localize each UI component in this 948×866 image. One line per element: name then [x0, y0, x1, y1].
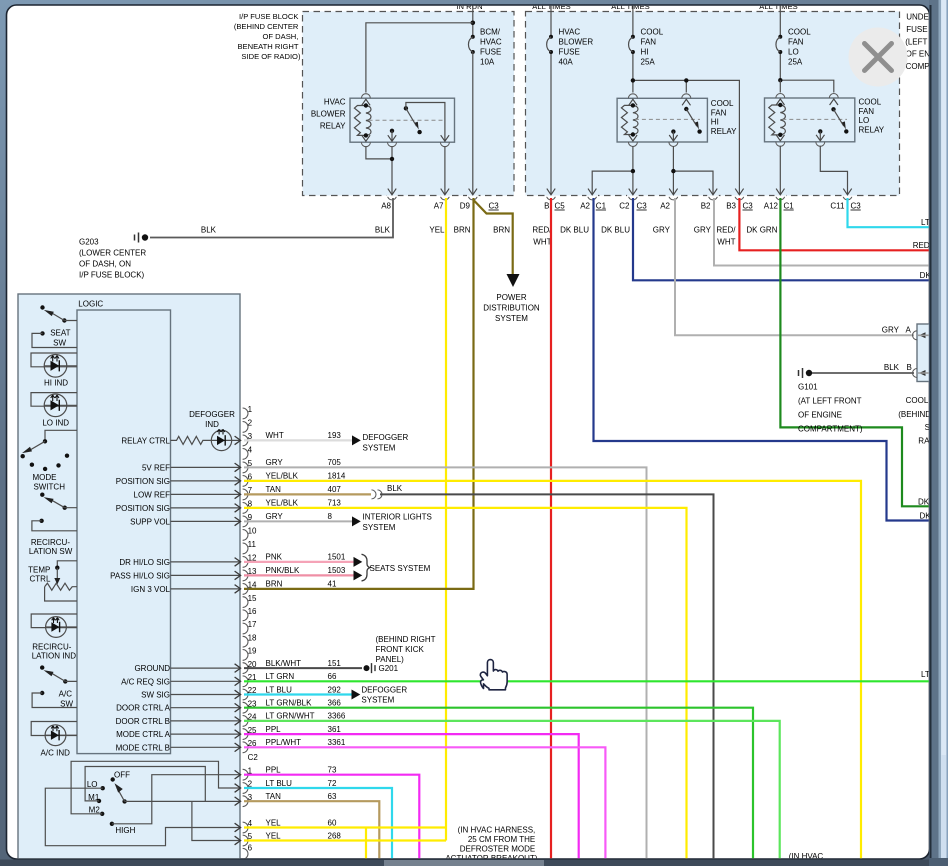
fuse HVAC BLOWER 40A — [547, 2, 594, 194]
junction A8 — [390, 157, 394, 161]
svg-text:RELAY: RELAY — [711, 127, 737, 136]
svg-text:TAN: TAN — [266, 792, 282, 801]
svg-text:MODE CTRL A: MODE CTRL A — [116, 730, 171, 739]
svg-text:WHT: WHT — [266, 431, 284, 440]
potentiometer TEMP CTRL — [28, 561, 77, 601]
svg-text:CTRL: CTRL — [30, 575, 51, 584]
svg-text:PNK/BLK: PNK/BLK — [266, 566, 300, 575]
svg-text:LOW REF: LOW REF — [134, 490, 171, 499]
svg-text:BLK: BLK — [375, 225, 391, 234]
svg-text:FUSE: FUSE — [480, 48, 501, 57]
wire PNK 1501 — [244, 561, 354, 563]
svg-text:16: 16 — [248, 607, 257, 616]
svg-text:17: 17 — [248, 620, 257, 629]
svg-text:A/C REQ SIG: A/C REQ SIG — [121, 677, 170, 686]
svg-text:151: 151 — [328, 659, 342, 668]
svg-text:A/C: A/C — [59, 689, 73, 698]
wire relay switch to A7 pin — [444, 146, 446, 194]
wire LT GRN/BLK 366 — [244, 708, 753, 859]
wire YEL/BLK 1814 — [244, 481, 861, 859]
wire relay coil- to A8 — [366, 146, 392, 159]
close button — [849, 28, 908, 87]
svg-text:LO: LO — [859, 116, 870, 125]
pin A7 bump — [440, 195, 449, 200]
svg-text:SEATS SYSTEM: SEATS SYSTEM — [370, 564, 431, 573]
svg-text:G101: G101 — [798, 383, 818, 392]
svg-text:C3: C3 — [851, 202, 862, 211]
svg-text:713: 713 — [328, 499, 342, 508]
wire BLK A8 to G203 — [150, 198, 393, 238]
svg-text:BLK: BLK — [884, 363, 900, 372]
svg-text:66: 66 — [328, 672, 337, 681]
LED HI IND — [31, 353, 77, 387]
wire LT BLU 292 to defogger — [244, 693, 352, 695]
wire M2 to pin C2-2 — [71, 761, 240, 814]
svg-text:LOGIC: LOGIC — [78, 299, 103, 308]
wire IN RUN feed — [472, 2, 474, 36]
relay COOL FAN HI RELAY — [617, 94, 737, 147]
svg-text:10: 10 — [248, 527, 257, 536]
wire labels C1 — [266, 431, 346, 747]
svg-text:C11: C11 — [830, 202, 845, 211]
svg-text:POWER: POWER — [496, 293, 526, 302]
wire pin C2-5 branch — [192, 801, 240, 840]
svg-text:BLOWER: BLOWER — [311, 110, 346, 119]
junction fan-hi — [631, 78, 635, 82]
HVAC control module outer box — [18, 294, 240, 859]
svg-text:COOL: COOL — [711, 99, 734, 108]
svg-text:RECIRCU-: RECIRCU- — [32, 643, 71, 652]
svg-text:DK BLU: DK BLU — [560, 225, 589, 234]
svg-text:WHT: WHT — [533, 237, 551, 246]
svg-text:PNK: PNK — [266, 553, 283, 562]
svg-text:LO IND: LO IND — [42, 418, 69, 427]
svg-text:3366: 3366 — [328, 712, 346, 721]
wire LT BLU 72 — [244, 788, 392, 859]
wire BRN branch to power distribution — [474, 200, 513, 274]
svg-text:COOL: COOL — [859, 98, 882, 107]
ground G201 — [364, 665, 370, 671]
svg-text:POSITION SIG: POSITION SIG — [116, 504, 170, 513]
fuse COOL FAN HI 25A — [629, 2, 664, 80]
cursor — [480, 660, 507, 690]
svg-text:TEMP: TEMP — [28, 566, 50, 575]
svg-text:C1: C1 — [784, 202, 795, 211]
wire DK BLU A2/C1 — [594, 198, 931, 521]
LED LO IND — [31, 393, 77, 428]
logic block — [77, 310, 171, 754]
svg-text:C2: C2 — [248, 753, 259, 762]
relay HVAC BLOWER RELAY — [311, 94, 455, 147]
svg-text:(BEHIND: (BEHIND — [898, 410, 931, 419]
svg-text:LT GRN/BLK: LT GRN/BLK — [266, 699, 313, 708]
svg-text:19: 19 — [248, 647, 257, 656]
svg-text:11: 11 — [248, 540, 257, 549]
svg-text:HVAC: HVAC — [559, 28, 581, 37]
svg-text:1503: 1503 — [328, 566, 346, 575]
svg-text:G201: G201 — [379, 664, 399, 673]
svg-text:PPL: PPL — [266, 725, 282, 734]
ground G203 — [79, 226, 217, 280]
svg-text:8: 8 — [328, 512, 333, 521]
svg-text:SUPP VOL: SUPP VOL — [130, 517, 170, 526]
svg-text:LT BLU: LT BLU — [266, 685, 293, 694]
svg-text:14: 14 — [248, 581, 257, 590]
svg-text:BLK: BLK — [387, 484, 403, 493]
svg-text:IN RUN: IN RUN — [456, 2, 482, 11]
svg-text:HI: HI — [711, 118, 719, 127]
svg-text:41: 41 — [328, 580, 337, 589]
wire relay NO contact to A8 pin — [391, 146, 393, 194]
svg-text:HVAC: HVAC — [480, 38, 502, 47]
svg-text:FAN: FAN — [711, 108, 727, 117]
wire GRY B2 — [714, 198, 930, 266]
wire TAN 407 — [244, 493, 371, 495]
svg-text:1: 1 — [248, 405, 253, 414]
svg-text:B2: B2 — [701, 202, 711, 211]
svg-text:SEAT: SEAT — [50, 328, 70, 337]
svg-text:GROUND: GROUND — [134, 664, 170, 673]
wire PPL/WHT 3361 — [244, 747, 605, 859]
svg-text:407: 407 — [328, 485, 342, 494]
svg-text:BRN: BRN — [454, 225, 471, 234]
svg-text:(AT LEFT FRONT: (AT LEFT FRONT — [798, 397, 862, 406]
svg-text:FUSE: FUSE — [559, 48, 580, 57]
wire PNK/BLK 1503 — [244, 574, 354, 576]
wire color labels row — [375, 225, 778, 246]
svg-text:FAN: FAN — [859, 107, 875, 116]
wire RED/WHT B3 — [739, 198, 930, 250]
svg-text:BCM/: BCM/ — [480, 28, 501, 37]
svg-text:COOL: COOL — [641, 28, 664, 37]
svg-text:A2: A2 — [660, 202, 670, 211]
svg-text:YEL/BLK: YEL/BLK — [266, 472, 299, 481]
svg-text:LO: LO — [788, 48, 799, 57]
svg-text:G203: G203 — [79, 237, 99, 246]
LED A/C IND — [31, 722, 77, 758]
box2 bottom pin bumps — [545, 189, 853, 200]
bottom scrollbar — [0, 858, 948, 866]
svg-text:C3: C3 — [743, 202, 754, 211]
svg-text:DEFOGGER: DEFOGGER — [361, 685, 407, 694]
wire labels C2 — [266, 766, 342, 841]
connector C1 pin arcs and numbers — [243, 405, 257, 753]
splice — [372, 490, 383, 499]
svg-text:DR HI/LO SIG: DR HI/LO SIG — [119, 558, 170, 567]
svg-text:SYSTEM: SYSTEM — [361, 696, 394, 705]
svg-text:25A: 25A — [641, 57, 656, 66]
svg-text:OFF: OFF — [114, 771, 130, 780]
svg-text:DK GRN: DK GRN — [746, 225, 777, 234]
box2 pin labels — [544, 202, 861, 211]
fuse BCM/HVAC 10A — [468, 21, 501, 67]
svg-text:DOOR CTRL B: DOOR CTRL B — [116, 717, 170, 726]
connector C2 pin arcs and numbers — [243, 766, 253, 859]
wire LO to pin C2-4 — [45, 788, 240, 846]
wire BLK/WHT 151 to G201 — [244, 667, 362, 669]
wire BLK from splice — [380, 494, 714, 859]
svg-text:DOOR CTRL A: DOOR CTRL A — [116, 704, 171, 713]
wire YEL 60 — [244, 826, 446, 828]
svg-text:I/P FUSE BLOCK): I/P FUSE BLOCK) — [79, 271, 145, 280]
arrow defogger system 2 — [352, 690, 361, 700]
module internal pin labels — [110, 436, 171, 752]
wire YEL/BLK 713 — [244, 508, 687, 859]
wire HIGH to pin C2-1 — [112, 775, 240, 824]
arrow interior lights system — [352, 516, 361, 526]
svg-text:B: B — [907, 363, 912, 372]
wire PPL 73 — [244, 775, 419, 859]
module internal pin wires — [171, 463, 241, 845]
wire WHT 193 to defogger system — [244, 439, 352, 441]
svg-text:C5: C5 — [555, 202, 566, 211]
svg-text:FAN: FAN — [641, 38, 657, 47]
wire YEL A7 blower feed — [445, 198, 447, 841]
svg-text:A2: A2 — [580, 202, 590, 211]
svg-text:DISTRIBUTION: DISTRIBUTION — [483, 303, 540, 312]
wire BRN D9 to pin14 — [244, 198, 474, 589]
svg-text:BLOWER: BLOWER — [559, 38, 594, 47]
wire GRY 8 to interior lights — [244, 520, 352, 522]
svg-text:RED/: RED/ — [532, 225, 552, 234]
connector cooling fan (clipped at edge) — [913, 324, 930, 382]
svg-text:YEL: YEL — [429, 225, 445, 234]
svg-text:WHT: WHT — [717, 237, 735, 246]
underhood fuse block box — [526, 12, 900, 196]
arrow defogger system — [352, 435, 361, 445]
svg-text:RECIRCU-: RECIRCU- — [31, 538, 70, 547]
svg-text:72: 72 — [328, 779, 337, 788]
svg-text:C3: C3 — [489, 202, 500, 211]
wire fan-hi fuse to relays and B3 — [633, 80, 740, 194]
switch MODE SWITCH — [21, 430, 78, 491]
svg-text:1501: 1501 — [328, 553, 346, 562]
LED DEFOGGER IND — [189, 410, 240, 450]
wire TAN 63 — [244, 801, 379, 859]
svg-text:C3: C3 — [637, 202, 648, 211]
svg-text:POSITION SIG: POSITION SIG — [116, 477, 170, 486]
wire RED/WHT B feed — [550, 198, 552, 859]
blower switch contacts — [87, 771, 136, 835]
svg-text:292: 292 — [328, 685, 342, 694]
switch RECIRCULATION SW — [29, 493, 77, 557]
svg-text:1814: 1814 — [328, 472, 346, 481]
wire LT GRN 66 — [244, 680, 930, 682]
svg-text:BRN: BRN — [493, 225, 510, 234]
svg-text:4: 4 — [248, 446, 253, 455]
svg-text:18: 18 — [248, 633, 257, 642]
svg-text:2: 2 — [248, 419, 253, 428]
svg-text:HIGH: HIGH — [115, 826, 135, 835]
svg-text:LT BLU: LT BLU — [266, 779, 293, 788]
switch A/C SW — [32, 665, 77, 708]
svg-text:3361: 3361 — [328, 738, 346, 747]
svg-text:A/C IND: A/C IND — [41, 749, 71, 758]
svg-text:268: 268 — [328, 831, 342, 840]
svg-text:C1: C1 — [596, 202, 607, 211]
wire lo contact to C11 pin — [820, 146, 847, 194]
svg-text:ALL TIMES: ALL TIMES — [611, 2, 649, 11]
svg-text:A: A — [906, 325, 912, 334]
svg-text:YEL: YEL — [266, 818, 282, 827]
right scrollbar — [929, 0, 948, 866]
svg-text:GRY: GRY — [266, 512, 284, 521]
svg-text:OF ENGINE: OF ENGINE — [798, 411, 842, 420]
svg-text:ALL TIMES: ALL TIMES — [759, 2, 797, 11]
wire fan-lo fuse to relay — [780, 80, 834, 92]
svg-text:B3: B3 — [726, 202, 736, 211]
svg-text:193: 193 — [328, 431, 342, 440]
svg-text:SYSTEM: SYSTEM — [495, 314, 528, 323]
svg-text:IND: IND — [205, 420, 219, 429]
svg-text:SWITCH: SWITCH — [33, 482, 65, 491]
I/P fuse block box — [303, 12, 515, 196]
svg-text:40A: 40A — [559, 57, 574, 66]
wire LT GRN/WHT 3366 — [244, 721, 780, 859]
svg-text:HVAC: HVAC — [324, 98, 346, 107]
svg-text:INTERIOR LIGHTS: INTERIOR LIGHTS — [363, 513, 432, 522]
svg-text:LATION IND: LATION IND — [32, 652, 77, 661]
svg-text:PPL: PPL — [266, 766, 282, 775]
svg-text:RED/: RED/ — [716, 225, 736, 234]
wire wiper to pin C2-3 — [125, 800, 240, 802]
svg-text:GRY: GRY — [882, 325, 900, 334]
svg-text:FAN: FAN — [788, 38, 804, 47]
wire yel drop branch — [365, 828, 367, 860]
svg-text:5V REF: 5V REF — [142, 463, 170, 472]
svg-text:LATION SW: LATION SW — [29, 547, 73, 556]
svg-text:705: 705 — [328, 458, 342, 467]
svg-text:73: 73 — [328, 766, 337, 775]
brace seats system — [362, 554, 371, 581]
svg-text:BRN: BRN — [266, 580, 283, 589]
svg-text:A7: A7 — [434, 202, 444, 211]
svg-text:COOLI: COOLI — [906, 396, 931, 405]
wire GRY 705 — [244, 467, 647, 859]
wire fuse10A to D9 pin — [472, 52, 474, 194]
wire lo coil- to A12 pin — [779, 146, 781, 194]
svg-text:25A: 25A — [788, 57, 803, 66]
svg-text:DEFOGGER: DEFOGGER — [363, 433, 409, 442]
switch SEAT SW — [32, 305, 77, 347]
svg-text:10A: 10A — [480, 57, 495, 66]
svg-text:MODE CTRL B: MODE CTRL B — [116, 743, 170, 752]
pin D9 bump — [468, 195, 477, 200]
svg-text:IGN 3 VOL: IGN 3 VOL — [131, 585, 171, 594]
svg-text:SYSTEM: SYSTEM — [363, 523, 396, 532]
wire hi coil- to A2/C2 pins — [592, 146, 633, 194]
svg-text:GRY: GRY — [694, 225, 712, 234]
svg-text:COOL: COOL — [788, 28, 811, 37]
svg-text:LT GRN/WHT: LT GRN/WHT — [266, 712, 315, 721]
svg-text:BLK: BLK — [201, 226, 217, 235]
svg-text:15: 15 — [248, 594, 257, 603]
wire DK GRN A12 — [780, 198, 930, 506]
svg-text:GRY: GRY — [266, 458, 284, 467]
svg-text:TAN: TAN — [266, 485, 282, 494]
svg-text:RELAY: RELAY — [859, 125, 885, 134]
svg-text:DEFOGGER: DEFOGGER — [189, 410, 235, 419]
resistor relay ctrl — [171, 436, 211, 444]
svg-text:BLK/WHT: BLK/WHT — [266, 659, 302, 668]
svg-text:SW: SW — [60, 699, 73, 708]
svg-text:C2: C2 — [619, 202, 630, 211]
wire fuse junction to relay coil — [366, 23, 473, 93]
arrow to power distribution system — [507, 274, 520, 287]
wire GRY A2 to fan connector — [675, 198, 914, 335]
relay COOL FAN LO RELAY — [765, 94, 885, 147]
svg-text:SW: SW — [53, 338, 66, 347]
svg-text:361: 361 — [328, 725, 342, 734]
svg-text:MODE: MODE — [33, 473, 57, 482]
svg-text:YEL: YEL — [266, 831, 282, 840]
wire PPL 361 — [244, 734, 579, 859]
svg-text:HI IND: HI IND — [44, 378, 68, 387]
svg-text:LT GRN: LT GRN — [266, 672, 295, 681]
LED RECIRCULATION IND — [31, 614, 77, 661]
ground G101 — [798, 363, 914, 434]
svg-text:(IN HVAC HARNESS, 25 CM FROM T: (IN HVAC HARNESS, 25 CM FROM THE DEFROST… — [445, 826, 537, 863]
wire hi contact to A2/B2 pins — [673, 146, 713, 194]
svg-text:63: 63 — [328, 792, 337, 801]
svg-text:SW SIG: SW SIG — [141, 691, 170, 700]
svg-text:B: B — [544, 202, 549, 211]
svg-text:A8: A8 — [381, 202, 391, 211]
wire YEL 268 — [244, 839, 446, 841]
svg-text:D9: D9 — [460, 202, 471, 211]
svg-text:YEL/BLK: YEL/BLK — [266, 499, 299, 508]
svg-text:A12: A12 — [764, 202, 779, 211]
svg-text:RELAY: RELAY — [320, 122, 346, 131]
pin A8 bump — [388, 195, 397, 200]
wire M1 riser — [85, 767, 205, 802]
svg-text:PASS HI/LO SIG: PASS HI/LO SIG — [110, 571, 170, 580]
svg-text:HI: HI — [641, 48, 649, 57]
svg-text:RELAY CTRL: RELAY CTRL — [121, 436, 170, 445]
svg-text:(LOWER CENTER: (LOWER CENTER — [79, 249, 146, 258]
svg-text:366: 366 — [328, 699, 342, 708]
svg-text:GRY: GRY — [653, 225, 671, 234]
wire LT BLU C11 — [848, 198, 931, 227]
svg-text:PPL/WHT: PPL/WHT — [266, 738, 302, 747]
svg-text:DK BLU: DK BLU — [601, 225, 630, 234]
wire DK BLU C2/C3 — [633, 198, 930, 280]
svg-text:OF DASH, ON: OF DASH, ON — [79, 260, 131, 269]
svg-text:6: 6 — [248, 843, 253, 852]
fuse COOL FAN LO 25A — [776, 2, 811, 80]
svg-text:SYSTEM: SYSTEM — [363, 443, 396, 452]
svg-text:60: 60 — [328, 818, 337, 827]
svg-text:COMPARTMENT): COMPARTMENT) — [798, 425, 863, 434]
